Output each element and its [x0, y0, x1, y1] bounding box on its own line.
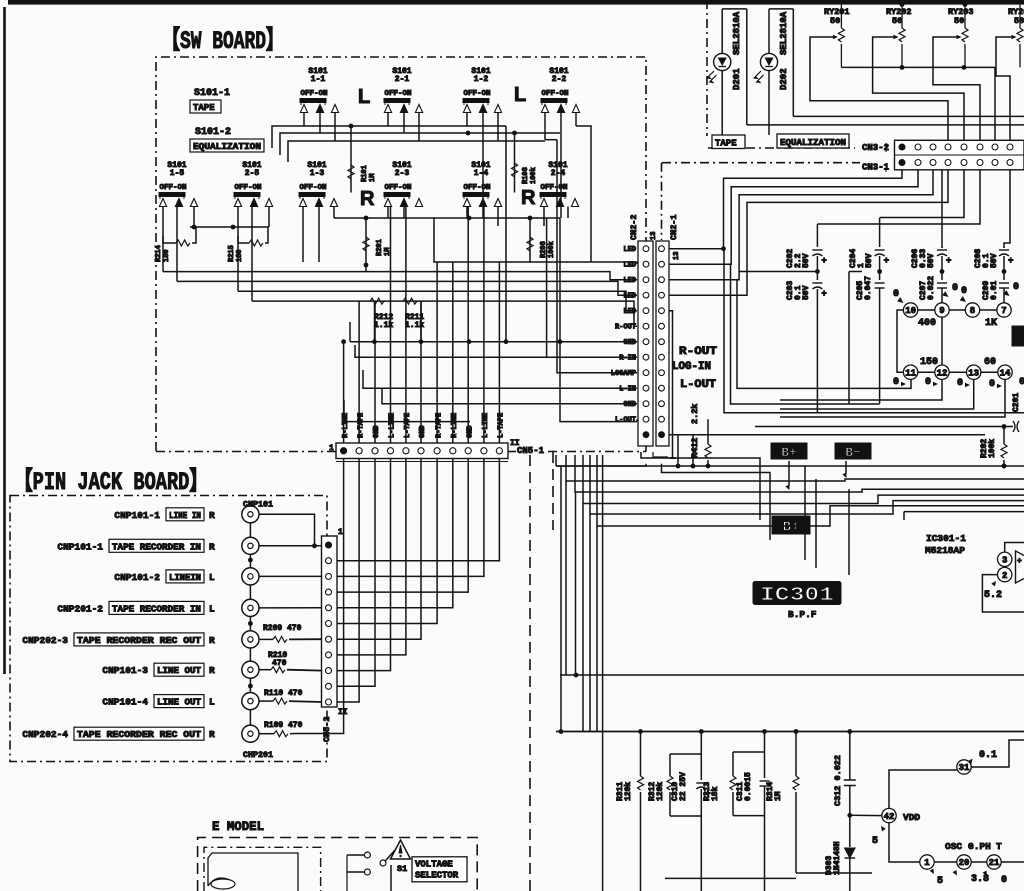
svg-text:L-OUT: L-OUT — [680, 379, 716, 391]
CN2 bottom bracket — [653, 452, 675, 463]
junction dots on gnd bus at CN5-1 risers — [341, 339, 346, 344]
pin jacks CNP101/CNP201 — [242, 506, 259, 743]
svg-text:CN5-1: CN5-1 — [517, 446, 545, 456]
resistor R109 470 — [259, 721, 303, 737]
wire riser tops — [0, 0, 1, 1]
pin annotation 0 0 at 9/8 — [942, 283, 968, 304]
wire 11 bottom feed — [780, 379, 911, 388]
wire CN3 staircase 3 — [669, 170, 933, 280]
svg-text:0: 0 — [957, 378, 963, 389]
svg-text:LINE IN: LINE IN — [169, 511, 201, 521]
svg-text:1M: 1M — [774, 791, 783, 801]
board boundary dash mid — [662, 163, 861, 240]
svg-text:OFF-ON: OFF-ON — [540, 184, 567, 192]
svg-text:0: 0 — [1013, 282, 1019, 293]
svg-text:L: L — [209, 697, 215, 708]
svg-text:0: 0 — [989, 379, 995, 390]
svg-text:R-IN: R-IN — [619, 355, 636, 363]
svg-text:R: R — [521, 187, 536, 209]
wire stems S101 1-2 — [467, 112, 498, 218]
svg-text:OFF-ON: OFF-ON — [300, 90, 327, 98]
wire stems S101 1-4 — [467, 207, 498, 227]
pin circle 42 VDD — [850, 808, 921, 847]
letter L channel row1 — [358, 84, 526, 108]
wire bus D201 right — [747, 124, 1024, 126]
svg-text:100k: 100k — [988, 439, 997, 458]
wire long bus 4 — [252, 301, 637, 326]
switch S101 1-3 — [299, 161, 338, 207]
EQUALIZATION mode label — [777, 134, 849, 148]
svg-text:18k: 18k — [711, 786, 720, 801]
pot bottom rail — [841, 65, 995, 140]
CN2 pins — [643, 246, 664, 438]
pin annotations row2 — [893, 377, 1024, 390]
wire row1 bus A ext — [576, 126, 591, 262]
wires CN5-1 up to switches — [344, 207, 500, 444]
wire wiper arm RY204 — [996, 37, 1014, 140]
wire CN3 staircase 1 — [669, 170, 902, 251]
svg-text:LED: LED — [623, 262, 636, 270]
svg-text:11: 11 — [905, 368, 916, 378]
svg-text:E MODEL: E MODEL — [212, 820, 264, 834]
svg-text:B+: B+ — [783, 520, 800, 536]
wire row1 bus A — [272, 124, 506, 148]
B- badge — [835, 443, 871, 460]
wire cn2 bottom bundle 2 — [556, 464, 1024, 469]
wire cn2 row11 feed — [382, 388, 637, 404]
svg-text:+: + — [1008, 256, 1013, 266]
letter R channel row2 — [360, 187, 536, 210]
capacitor C201 right edge — [755, 393, 1021, 432]
wire cap top link — [0, 0, 1, 1]
E model dashed box — [198, 838, 478, 891]
svg-text:R209 470: R209 470 — [263, 624, 302, 633]
switch S101 2-2 — [541, 67, 580, 113]
resistor R314 1M — [766, 732, 872, 874]
resistor R210 470 — [259, 651, 322, 673]
svg-text:CHP201: CHP201 — [243, 750, 273, 760]
wire cn2 row9 feed — [557, 140, 637, 373]
wire stems S101 2-1 — [388, 112, 419, 141]
svg-text:S1: S1 — [397, 864, 407, 874]
svg-text:CNP202-3: CNP202-3 — [22, 635, 68, 646]
wire fan drop to IC area 2 — [815, 479, 817, 568]
svg-text:13: 13 — [968, 368, 979, 378]
svg-text:OFF-ON: OFF-ON — [463, 184, 490, 192]
voltage selector switch S1 contacts — [347, 850, 395, 891]
svg-text:B−: B− — [845, 445, 861, 460]
svg-text:IC301-1: IC301-1 — [926, 533, 966, 544]
jack label CNP202-3 TAPE RECORDER REC OUT R — [22, 633, 215, 646]
connector CN5-2 body — [322, 536, 338, 707]
svg-text:R108: R108 — [522, 167, 530, 184]
svg-text:L: L — [358, 86, 370, 108]
svg-text:2-1: 2-1 — [395, 75, 410, 84]
svg-text:180: 180 — [236, 249, 244, 262]
svg-text:1: 1 — [329, 444, 334, 453]
svg-text:5.2: 5.2 — [984, 590, 1002, 601]
svg-text:0.047: 0.047 — [864, 276, 873, 300]
jack label CNP101-3 LINE OUT R — [102, 663, 215, 676]
svg-text:0: 0 — [961, 286, 967, 297]
svg-text:R: R — [209, 541, 215, 552]
svg-text:3: 3 — [1002, 556, 1007, 566]
svg-text:R-OUT: R-OUT — [679, 346, 717, 358]
SW board boundary box — [156, 57, 646, 452]
svg-text:EQUALIZATION: EQUALIZATION — [193, 142, 261, 152]
CN3-2 name label — [862, 143, 889, 153]
svg-text:LED: LED — [623, 293, 636, 301]
E MODEL label — [212, 820, 264, 834]
svg-text:1-1: 1-1 — [311, 75, 326, 84]
svg-text:LOGAMP: LOGAMP — [611, 370, 636, 378]
svg-text:LINEIN: LINEIN — [169, 573, 201, 583]
capacitor C205 0.047 — [856, 272, 885, 404]
wire long bus 1 — [163, 272, 637, 280]
svg-text:1: 1 — [338, 528, 343, 537]
wire cn2 riser v724 — [724, 249, 1024, 413]
svg-text:2-5: 2-5 — [245, 169, 260, 178]
svg-text:+: + — [884, 256, 889, 266]
svg-text:R: R — [209, 665, 215, 676]
svg-text:1-3: 1-3 — [310, 169, 325, 178]
rail y731 VDD — [556, 729, 1024, 734]
connector CN5-1 body — [336, 443, 508, 462]
wire CN3 down C206 — [941, 170, 943, 248]
svg-text:0: 0 — [925, 377, 931, 388]
svg-text:0: 0 — [1001, 875, 1007, 886]
svg-text:0.1: 0.1 — [979, 750, 997, 761]
transformer T901 core — [208, 853, 298, 891]
svg-text:5: 5 — [937, 876, 943, 887]
op-amp feedback loop — [982, 575, 1024, 612]
switch S101 2-1 — [384, 67, 423, 113]
svg-text:1-2: 1-2 — [474, 75, 489, 84]
svg-text:【PIN JACK BOARD】: 【PIN JACK BOARD】 — [14, 467, 208, 497]
svg-text:EQUALIZATION: EQUALIZATION — [780, 138, 846, 148]
svg-text:50: 50 — [892, 16, 902, 26]
svg-text:0.0015: 0.0015 — [744, 772, 753, 801]
potentiometer RY201 50 — [824, 5, 850, 68]
wire stems S101 1-1 — [304, 112, 335, 141]
svg-text:CN5-2: CN5-2 — [322, 716, 332, 742]
svg-text:0: 0 — [893, 289, 899, 300]
resistor R412 2.2k — [690, 404, 711, 466]
svg-text:D201: D201 — [732, 68, 742, 90]
pin annotation 0 at 7 — [1003, 282, 1019, 298]
resistor R108 100k — [512, 133, 539, 193]
svg-text:0: 0 — [1019, 377, 1024, 388]
svg-text:50V: 50V — [802, 285, 811, 300]
rail y675 — [560, 673, 1024, 678]
connector CN2-2 body — [638, 241, 653, 446]
top supply bus bar — [8, 0, 1024, 5]
CN3 pins — [899, 144, 1013, 166]
capacitor C312 0.022 — [833, 732, 856, 818]
resistor R211 1.1k — [403, 298, 424, 330]
B+ badge 2 — [772, 516, 810, 536]
wire mid fan line 7 — [904, 512, 1024, 520]
svg-text:2.2k: 2.2k — [690, 404, 700, 424]
svg-text:+: + — [1017, 557, 1022, 566]
connector CN5-1 pins — [341, 448, 503, 454]
svg-text:1: 1 — [924, 858, 930, 868]
svg-text:SEL2810A: SEL2810A — [732, 11, 742, 55]
potentiometer RY203 50 — [948, 5, 974, 68]
resistor R214 180 — [155, 227, 196, 262]
svg-text:50V: 50V — [865, 253, 874, 268]
switch S101 1-1 — [300, 67, 339, 113]
svg-text:3.8: 3.8 — [971, 874, 989, 885]
LED D202 — [754, 53, 778, 82]
svg-text:1N4148H: 1N4148H — [833, 841, 842, 875]
VOLTAGE SELECTOR label — [412, 857, 467, 882]
svg-text:SEL2810A: SEL2810A — [779, 11, 789, 55]
wire cn2 bottom bundle 3 — [662, 464, 771, 540]
wire fan drop to IC area 3 — [848, 489, 850, 575]
svg-text:LED: LED — [623, 246, 636, 254]
svg-text:R-OUT: R-OUT — [615, 324, 636, 332]
svg-text:R215: R215 — [228, 245, 236, 262]
svg-text:400: 400 — [918, 318, 936, 329]
pot top bus junction dots — [900, 2, 968, 7]
svg-text:R201: R201 — [376, 239, 384, 256]
wire CN3 down C208 — [1004, 170, 1010, 248]
svg-text:50V: 50V — [990, 253, 999, 268]
switch S101 2-4 — [540, 161, 579, 207]
svg-text:2-3: 2-3 — [395, 169, 410, 178]
svg-text:TAPE RECORDER IN: TAPE RECORDER IN — [112, 542, 201, 552]
op-amp U301 triangle — [1016, 551, 1024, 583]
wire jack3 to CN5-2 row3 — [259, 575, 322, 577]
svg-text:R109 470: R109 470 — [264, 721, 303, 730]
wire after 21 — [1001, 861, 1024, 863]
wires CN5-1 down staircase to CN5-2 — [337, 459, 499, 702]
pin circle 12 — [918, 365, 949, 379]
switch S101 2-3 — [384, 161, 423, 207]
wire mid fan line 3 — [575, 455, 1024, 492]
CNP101 label — [243, 500, 273, 510]
svg-text:CN2-2: CN2-2 — [629, 214, 639, 240]
OSC GPH labels — [945, 841, 1002, 852]
resistor R209 470 — [259, 624, 322, 642]
svg-text:TAPE RECORDER IN: TAPE RECORDER IN — [112, 604, 201, 614]
wire 9 to 12 — [941, 317, 943, 365]
capacitor C206 0.33 50V — [911, 247, 951, 274]
svg-text:100k: 100k — [548, 241, 556, 258]
svg-text:IC301: IC301 — [760, 584, 834, 606]
potentiometer RY202 50 — [886, 5, 912, 68]
CN2-2 name label — [629, 214, 639, 240]
LED D201 wires — [722, 9, 747, 135]
svg-text:2: 2 — [1002, 571, 1007, 581]
wire bus left small — [190, 225, 269, 230]
TAPE mode label — [712, 135, 745, 149]
svg-text:TAPE: TAPE — [715, 139, 737, 149]
board boundary dashed top right — [707, 0, 855, 148]
wire 12 down staircase — [780, 379, 942, 400]
wire jack1 to CN5-2 — [259, 514, 317, 548]
wire loop around 31 — [889, 770, 957, 862]
wire cn2 pin13 bus — [669, 434, 985, 436]
svg-text:OSC: OSC — [945, 841, 962, 852]
pin circle 14 — [981, 365, 1012, 379]
B+ feed arrow — [785, 461, 791, 491]
svg-text:150: 150 — [920, 357, 938, 368]
wire fan vertical long — [602, 455, 604, 891]
board boundary dashed vertical — [530, 452, 553, 891]
svg-text:+: + — [946, 256, 951, 266]
svg-text:OFF-ON: OFF-ON — [463, 90, 490, 98]
wire cn2 bottom bundle 1 — [641, 452, 760, 520]
svg-text:CN3-1: CN3-1 — [862, 163, 890, 173]
resistor R312 120k — [648, 754, 673, 816]
wire mid fan line 4 — [583, 455, 1024, 732]
svg-text:1-4: 1-4 — [474, 169, 489, 178]
wire bus mid y218 — [334, 216, 560, 221]
svg-text:L-IN: L-IN — [619, 386, 636, 394]
switch S101 1-2 — [463, 67, 502, 113]
svg-text:S101-1: S101-1 — [194, 88, 230, 99]
svg-text:VOLTAGE: VOLTAGE — [415, 860, 453, 870]
clipped badge right edge — [1012, 326, 1024, 346]
svg-text:R110 470: R110 470 — [264, 689, 303, 698]
wire cn2 row8 feed — [355, 345, 637, 357]
resistor R101 1M — [348, 126, 377, 193]
svg-text:50V: 50V — [802, 253, 811, 268]
wire gnd bus — [350, 339, 637, 344]
wire fan riser 556 — [555, 455, 557, 466]
resistor R215 180 — [228, 227, 268, 262]
svg-text:OFF-ON: OFF-ON — [384, 90, 411, 98]
svg-text:GND: GND — [623, 339, 636, 347]
svg-text:CN2-1: CN2-1 — [669, 214, 679, 240]
wire fan vertical to rail 675 — [575, 492, 577, 675]
pin circle 9 — [918, 303, 949, 317]
wire stems S101 2-4 — [544, 207, 568, 227]
svg-text:OFF-ON: OFF-ON — [299, 184, 326, 192]
svg-text:R412: R412 — [690, 438, 700, 458]
wire R212 to gnd — [374, 301, 376, 342]
wire 13 down staircase — [780, 379, 974, 409]
diode D303 1N4148H — [825, 815, 855, 891]
svg-text:TAPE: TAPE — [193, 103, 215, 113]
svg-text:CNP101: CNP101 — [243, 500, 273, 510]
svg-text:SELECTOR: SELECTOR — [415, 871, 459, 881]
pin circle 1 — [920, 855, 943, 887]
svg-text:TAPE RECORDER REC OUT: TAPE RECORDER REC OUT — [77, 730, 202, 740]
wire vert x506 — [505, 126, 507, 342]
svg-text:14: 14 — [1000, 368, 1011, 378]
connector CN3 body — [895, 140, 1024, 170]
jack label CNP101-2 LINEIN L — [114, 570, 215, 583]
svg-text:G.PH: G.PH — [968, 841, 991, 852]
svg-text:R: R — [209, 510, 215, 521]
wire bottom link — [665, 877, 796, 879]
IC301-1 designator — [925, 533, 966, 556]
pin annotation 0 at 10 — [893, 289, 905, 305]
D202 designator — [779, 11, 789, 90]
IC301 BPF label — [788, 609, 817, 620]
svg-text:50: 50 — [954, 16, 964, 26]
wire wiper arm RY203 — [933, 37, 980, 140]
CN3-1 name label — [862, 163, 890, 173]
op-amp U301 feedback top — [1005, 543, 1024, 553]
capacitor C207 0.022 — [919, 272, 947, 303]
CN2 right net labels — [672, 346, 717, 391]
svg-text:21: 21 — [989, 858, 1000, 868]
svg-text:OFF-ON: OFF-ON — [384, 184, 411, 192]
SW BOARD title — [162, 26, 284, 56]
pin circle 31 — [957, 740, 1024, 774]
svg-text:II: II — [338, 708, 348, 717]
IC301 badge — [753, 582, 841, 607]
resistor R208 100k — [527, 216, 556, 262]
transformer boundary — [204, 847, 321, 891]
jack label CNP101-1 LINE IN R — [114, 508, 215, 521]
wire cn2 row10 feed — [363, 370, 637, 388]
wire mid fan line 5 — [590, 455, 1024, 732]
wire long bus 2 — [177, 281, 637, 295]
wire stems S101 2-5 — [238, 207, 269, 302]
svg-text:12: 12 — [937, 368, 948, 378]
op-amp 5.2 annotation — [984, 580, 1002, 601]
svg-text:13: 13 — [650, 232, 658, 240]
D201 designator — [732, 11, 742, 90]
svg-text:D202: D202 — [779, 68, 789, 90]
svg-text:L: L — [209, 572, 215, 583]
capacitor C208 0.1 50V — [974, 247, 1013, 274]
CN2 row labels — [611, 246, 636, 425]
svg-text:CNP202-4: CNP202-4 — [22, 729, 68, 740]
wire cn2 row12 feed — [344, 400, 470, 422]
LED D202 wires — [769, 9, 793, 135]
jack label CNP201-2 TAPE RECORDER IN L — [57, 601, 215, 614]
CN5-1 end markers — [329, 439, 520, 453]
capacitor C209 0.01 — [982, 272, 1009, 303]
connector CN2-1 body — [656, 241, 669, 446]
resistor R313 18k — [703, 752, 736, 816]
wire gnd bus stub — [349, 322, 351, 342]
svg-text:20: 20 — [959, 858, 970, 868]
capacitor C202 2.2 50V — [786, 224, 827, 274]
svg-text:OFF-ON: OFF-ON — [234, 184, 261, 192]
svg-text:T: T — [996, 841, 1002, 852]
svg-text:+: + — [821, 256, 826, 266]
CN5-2 markers — [338, 528, 348, 717]
svg-text:B+: B+ — [781, 445, 797, 460]
svg-text:CNP101-1: CNP101-1 — [57, 541, 103, 552]
wire stems S101 1-5 — [163, 207, 194, 282]
switch S101 1-5 — [159, 161, 198, 207]
jack label CNP101-4 LINE OUT L — [102, 695, 215, 708]
wire 14 down staircase — [780, 379, 1005, 417]
wire wiper arm RY202 — [873, 37, 964, 140]
capacitor C203 0.1 50V — [786, 272, 827, 413]
svg-text:C201: C201 — [1012, 393, 1021, 412]
resistor R212 1.1k — [370, 298, 393, 330]
wire stems S101 1-3 — [303, 207, 334, 263]
B+ badge 1 — [771, 443, 807, 460]
jack label CNP202-4 TAPE RECORDER REC OUT R — [22, 727, 215, 740]
svg-text:VDD: VDD — [903, 812, 920, 823]
svg-text:9: 9 — [939, 306, 944, 316]
wire CN3 staircase 4 — [669, 170, 948, 296]
capacitor C204 1 50V — [849, 218, 889, 274]
svg-text:GND: GND — [623, 401, 636, 409]
svg-text:OFF-ON: OFF-ON — [541, 90, 568, 98]
wire CN3 staircase 2 — [669, 170, 918, 265]
